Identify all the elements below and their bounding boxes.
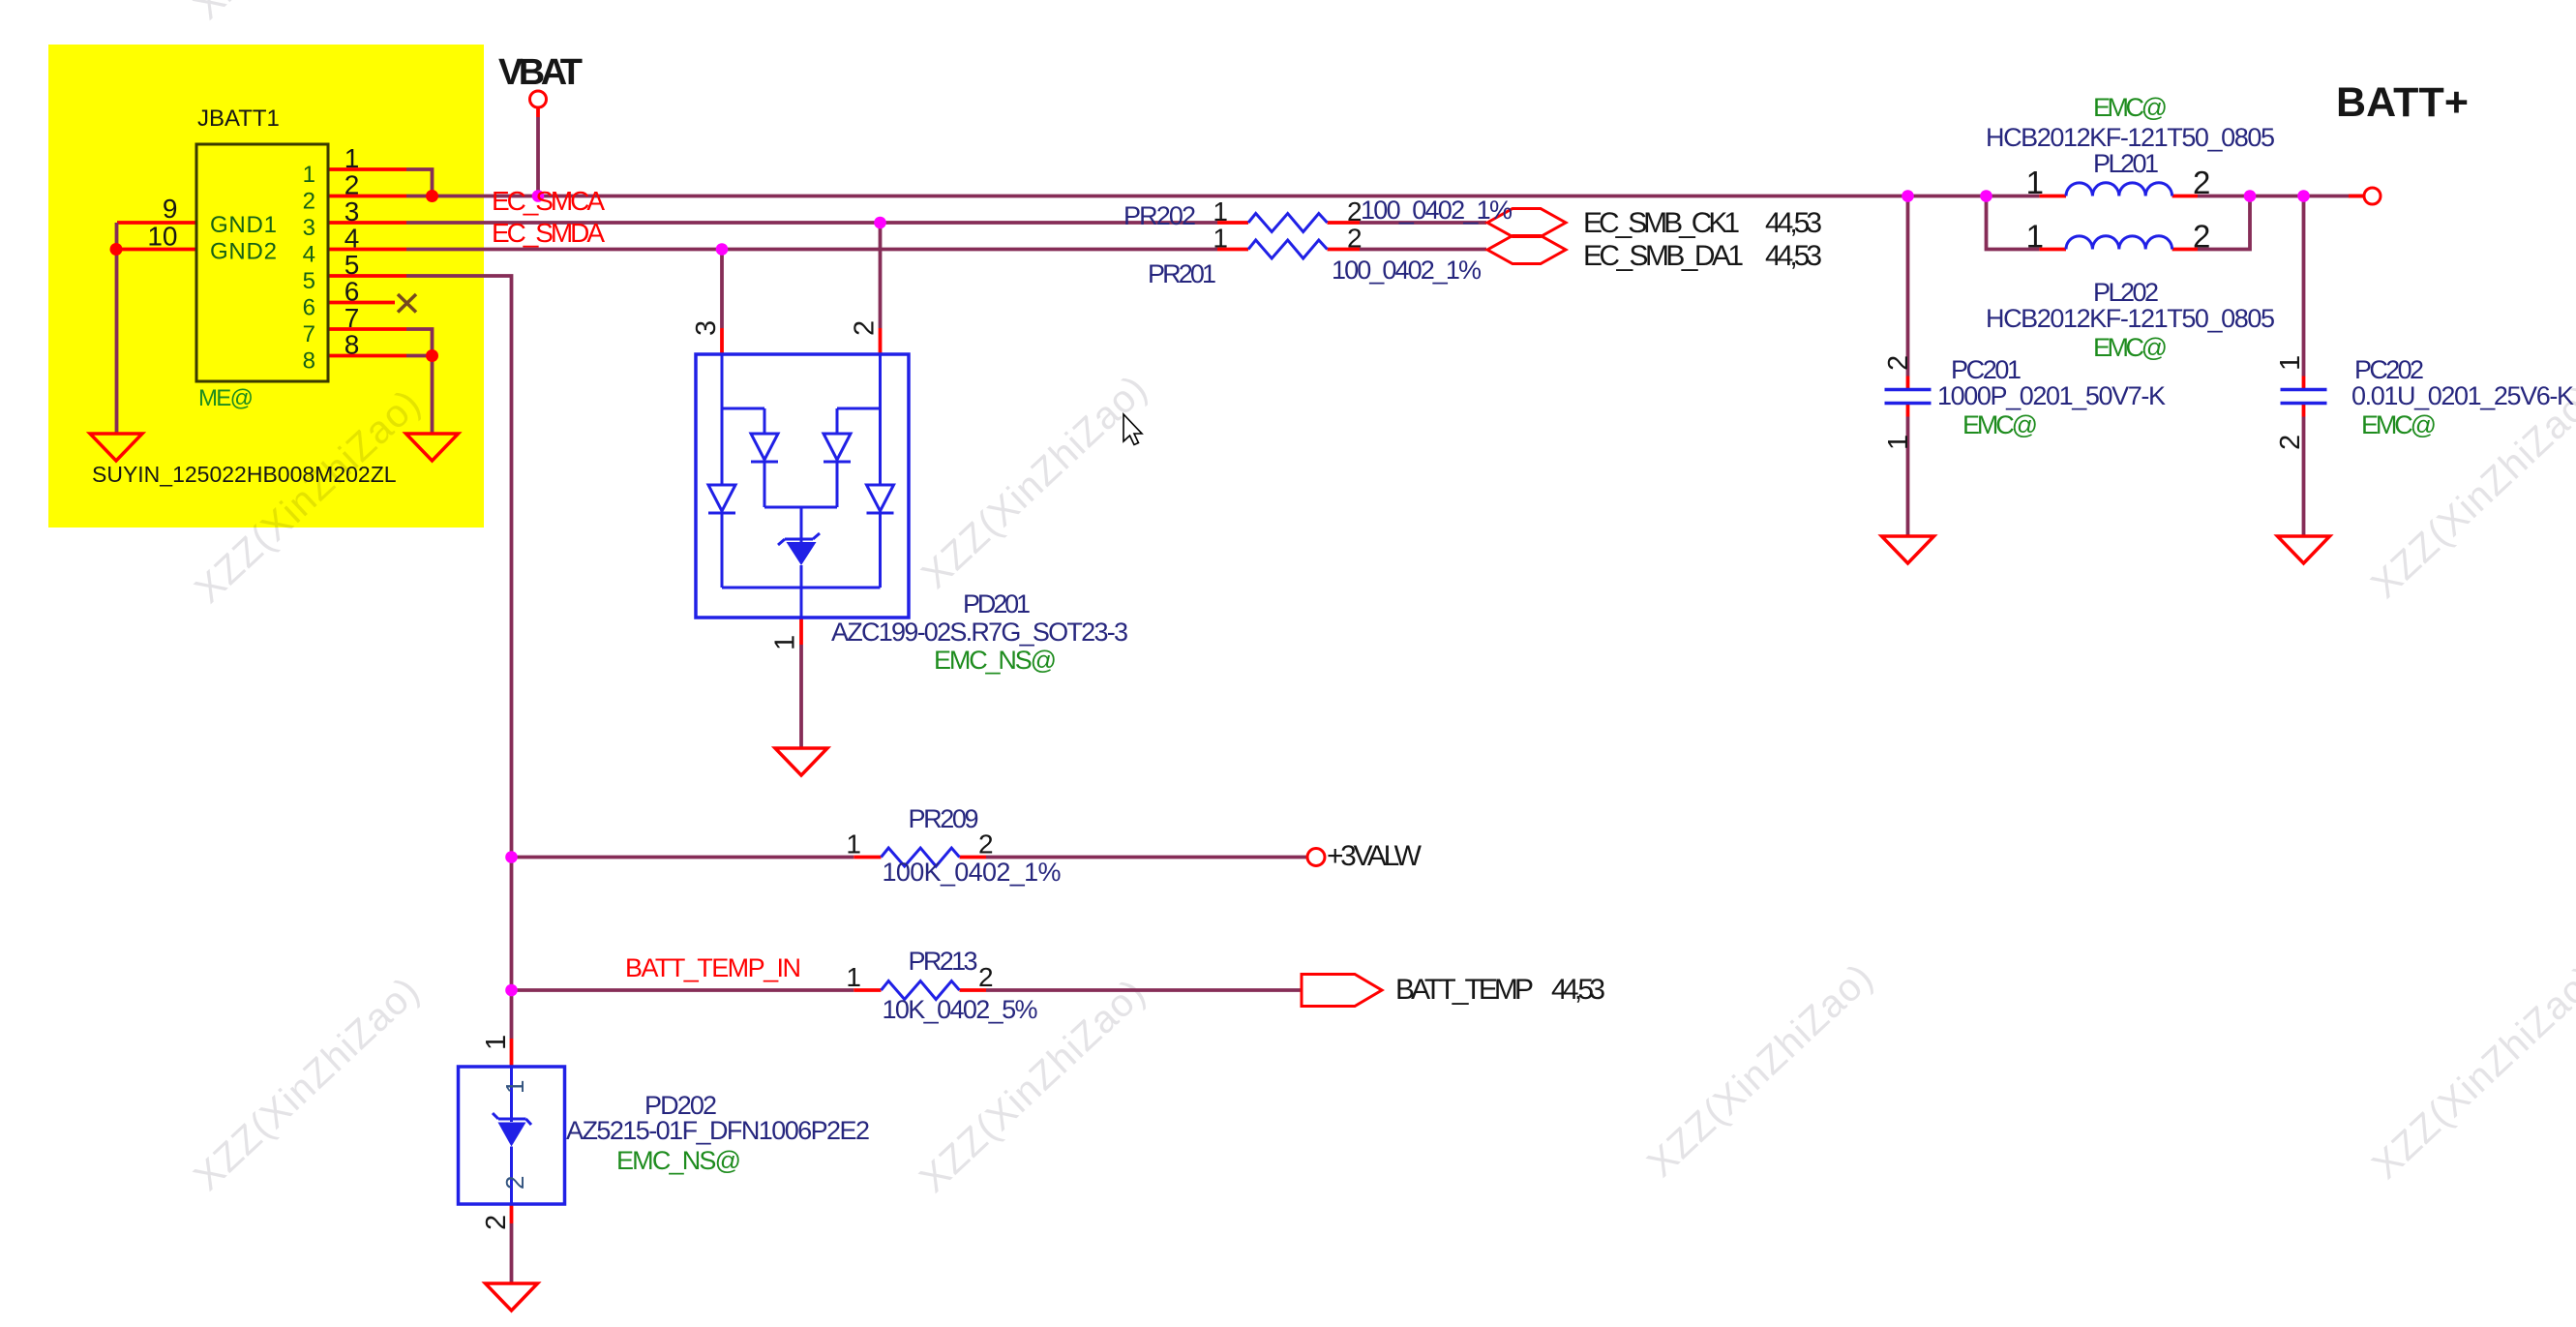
svg-text:EC_SMCA: EC_SMCA bbox=[492, 186, 605, 216]
svg-text:10K_0402_5%: 10K_0402_5% bbox=[883, 995, 1038, 1024]
svg-text:1: 1 bbox=[1213, 196, 1228, 226]
svg-text:BATT+: BATT+ bbox=[2336, 79, 2469, 126]
svg-text:PC202: PC202 bbox=[2354, 355, 2424, 384]
svg-text:PD201: PD201 bbox=[963, 589, 1031, 618]
svg-text:PL202: PL202 bbox=[2093, 278, 2159, 307]
svg-text:4: 4 bbox=[344, 224, 360, 254]
svg-text:9: 9 bbox=[163, 194, 178, 224]
svg-text:7: 7 bbox=[303, 321, 315, 347]
svg-text:5: 5 bbox=[344, 250, 360, 280]
svg-text:BATT_TEMP: BATT_TEMP bbox=[1395, 974, 1534, 1006]
svg-text:+3VALW: +3VALW bbox=[1327, 840, 1423, 872]
svg-text:ME@: ME@ bbox=[198, 385, 254, 411]
svg-text:1: 1 bbox=[2275, 355, 2306, 371]
svg-text:2: 2 bbox=[500, 1176, 529, 1190]
svg-text:EMC@: EMC@ bbox=[2093, 333, 2168, 362]
svg-text:2: 2 bbox=[303, 189, 315, 215]
svg-text:2: 2 bbox=[1883, 355, 1914, 371]
svg-text:GND2: GND2 bbox=[210, 239, 277, 265]
svg-text:PR201: PR201 bbox=[1148, 259, 1216, 288]
svg-text:HCB2012KF-121T50_0805: HCB2012KF-121T50_0805 bbox=[1986, 304, 2275, 333]
svg-text:1: 1 bbox=[846, 962, 861, 992]
svg-text:2: 2 bbox=[2193, 219, 2210, 255]
svg-text:BATT_TEMP_IN: BATT_TEMP_IN bbox=[625, 953, 801, 982]
svg-text:1: 1 bbox=[2026, 165, 2044, 200]
svg-text:EMC_NS@: EMC_NS@ bbox=[616, 1146, 741, 1175]
svg-text:PR213: PR213 bbox=[909, 947, 978, 976]
svg-text:PR209: PR209 bbox=[909, 804, 979, 833]
svg-text:SUYIN_125022HB008M202ZL: SUYIN_125022HB008M202ZL bbox=[92, 462, 397, 487]
svg-text:100_0402_1%: 100_0402_1% bbox=[1332, 256, 1482, 285]
svg-text:EMC@: EMC@ bbox=[2361, 410, 2437, 439]
svg-text:6: 6 bbox=[303, 295, 315, 321]
svg-text:EMC@: EMC@ bbox=[1962, 410, 2038, 439]
svg-text:8: 8 bbox=[303, 348, 315, 375]
svg-text:2: 2 bbox=[978, 962, 994, 992]
svg-text:PC201: PC201 bbox=[1951, 355, 2022, 384]
svg-text:100_0402_1%: 100_0402_1% bbox=[1361, 196, 1513, 225]
svg-text:2: 2 bbox=[2193, 165, 2210, 200]
svg-text:5: 5 bbox=[303, 268, 315, 294]
svg-text:AZ5215-01F_DFN1006P2E2: AZ5215-01F_DFN1006P2E2 bbox=[566, 1116, 870, 1145]
svg-text:2: 2 bbox=[481, 1215, 512, 1230]
svg-text:44,53: 44,53 bbox=[1765, 207, 1822, 239]
svg-text:6: 6 bbox=[344, 277, 360, 307]
svg-text:EC_SMB_CK1: EC_SMB_CK1 bbox=[1583, 207, 1740, 239]
svg-text:10: 10 bbox=[147, 222, 177, 252]
svg-text:2: 2 bbox=[850, 320, 881, 336]
svg-text:EMC@: EMC@ bbox=[2093, 93, 2168, 122]
svg-text:3: 3 bbox=[691, 320, 722, 336]
svg-text:1: 1 bbox=[303, 162, 315, 188]
svg-text:44,53: 44,53 bbox=[1765, 240, 1822, 272]
svg-text:JBATT1: JBATT1 bbox=[197, 106, 280, 132]
svg-text:1: 1 bbox=[770, 635, 801, 650]
svg-text:1000P_0201_50V7-K: 1000P_0201_50V7-K bbox=[1937, 381, 2166, 410]
svg-text:EMC_NS@: EMC_NS@ bbox=[934, 646, 1057, 675]
svg-text:1: 1 bbox=[481, 1035, 512, 1050]
svg-text:100K_0402_1%: 100K_0402_1% bbox=[883, 858, 1062, 887]
svg-text:1: 1 bbox=[2026, 219, 2044, 255]
svg-text:2: 2 bbox=[344, 170, 360, 200]
svg-text:2: 2 bbox=[978, 829, 994, 860]
svg-text:AZC199-02S.R7G_SOT23-3: AZC199-02S.R7G_SOT23-3 bbox=[831, 618, 1128, 647]
svg-text:PL201: PL201 bbox=[2093, 149, 2159, 178]
svg-text:44,53: 44,53 bbox=[1551, 974, 1605, 1006]
svg-text:1: 1 bbox=[1883, 435, 1914, 450]
svg-text:3: 3 bbox=[303, 215, 315, 241]
svg-text:1: 1 bbox=[1213, 224, 1228, 254]
svg-text:PR202: PR202 bbox=[1123, 201, 1196, 230]
svg-text:7: 7 bbox=[344, 303, 360, 333]
svg-text:1: 1 bbox=[500, 1080, 529, 1094]
svg-text:0.01U_0201_25V6-K: 0.01U_0201_25V6-K bbox=[2351, 381, 2574, 410]
svg-text:3: 3 bbox=[344, 196, 360, 226]
svg-text:GND1: GND1 bbox=[210, 212, 277, 238]
svg-text:2: 2 bbox=[2275, 435, 2306, 450]
svg-text:VBAT: VBAT bbox=[498, 52, 583, 93]
svg-text:8: 8 bbox=[344, 330, 360, 360]
svg-text:1: 1 bbox=[344, 143, 360, 173]
svg-text:2: 2 bbox=[1347, 224, 1363, 254]
svg-text:4: 4 bbox=[303, 242, 315, 268]
svg-text:EC_SMB_DA1: EC_SMB_DA1 bbox=[1583, 240, 1744, 272]
svg-text:2: 2 bbox=[1347, 196, 1363, 226]
svg-text:EC_SMDA: EC_SMDA bbox=[492, 218, 605, 248]
svg-text:HCB2012KF-121T50_0805: HCB2012KF-121T50_0805 bbox=[1986, 123, 2275, 152]
svg-text:1: 1 bbox=[846, 829, 861, 860]
